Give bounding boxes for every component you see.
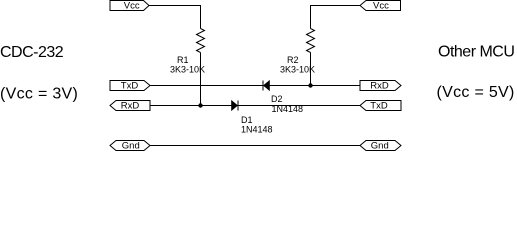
flag Vcc left	[110, 1, 149, 12]
svg-text:D1: D1	[241, 115, 253, 125]
svg-text:TxD: TxD	[370, 101, 388, 112]
svg-text:(Vcc = 5V): (Vcc = 5V)	[437, 84, 515, 101]
svg-text:3K3-10K: 3K3-10K	[280, 65, 315, 75]
svg-text:RxD: RxD	[370, 81, 389, 92]
wire R2 bottom lead	[310, 53, 312, 86]
wire Gnd row	[150, 145, 360, 147]
svg-text:RxD: RxD	[121, 101, 140, 112]
svg-text:D2: D2	[271, 94, 283, 104]
resistor R1	[197, 29, 205, 53]
svg-text:3K3-10K: 3K3-10K	[170, 65, 205, 75]
svg-text:Other MCU: Other MCU	[438, 44, 514, 61]
diode D1 (cathode right, on RxD row)	[232, 101, 239, 111]
svg-text:Vcc: Vcc	[124, 1, 140, 12]
wire TxD row (left TxD to right RxD)	[150, 85, 360, 87]
wire R2 top lead	[310, 6, 312, 29]
svg-text:Vcc: Vcc	[373, 1, 389, 12]
svg-text:1N4148: 1N4148	[272, 104, 304, 114]
wire Vcc right horizontal	[310, 5, 360, 7]
svg-text:Gnd: Gnd	[122, 141, 140, 151]
junction dot R1 to RxD row	[198, 103, 202, 107]
flag RxD left	[110, 101, 150, 112]
wire R1 top lead	[200, 6, 202, 29]
flag Gnd right	[360, 141, 401, 152]
svg-text:R2: R2	[287, 55, 299, 65]
wire RxD row (left RxD to right TxD)	[150, 105, 360, 107]
wire Vcc left horizontal	[149, 5, 201, 7]
resistor R2	[307, 29, 315, 53]
flag RxD right	[360, 81, 401, 92]
flag TxD right	[360, 101, 401, 112]
junction dot R2 to TxD row	[308, 83, 312, 87]
svg-text:1N4148: 1N4148	[241, 125, 273, 135]
svg-text:R1: R1	[177, 55, 189, 65]
svg-text:Gnd: Gnd	[371, 141, 389, 151]
flag TxD left	[110, 81, 150, 92]
svg-text:CDC-232: CDC-232	[0, 44, 64, 61]
wire R1 bottom lead	[200, 53, 202, 106]
diode D2 (cathode left, on TxD row)	[263, 81, 270, 91]
flag Vcc right	[360, 1, 401, 12]
svg-text:(Vcc = 3V): (Vcc = 3V)	[0, 86, 78, 103]
flag Gnd left	[110, 141, 150, 152]
svg-text:TxD: TxD	[121, 81, 139, 92]
